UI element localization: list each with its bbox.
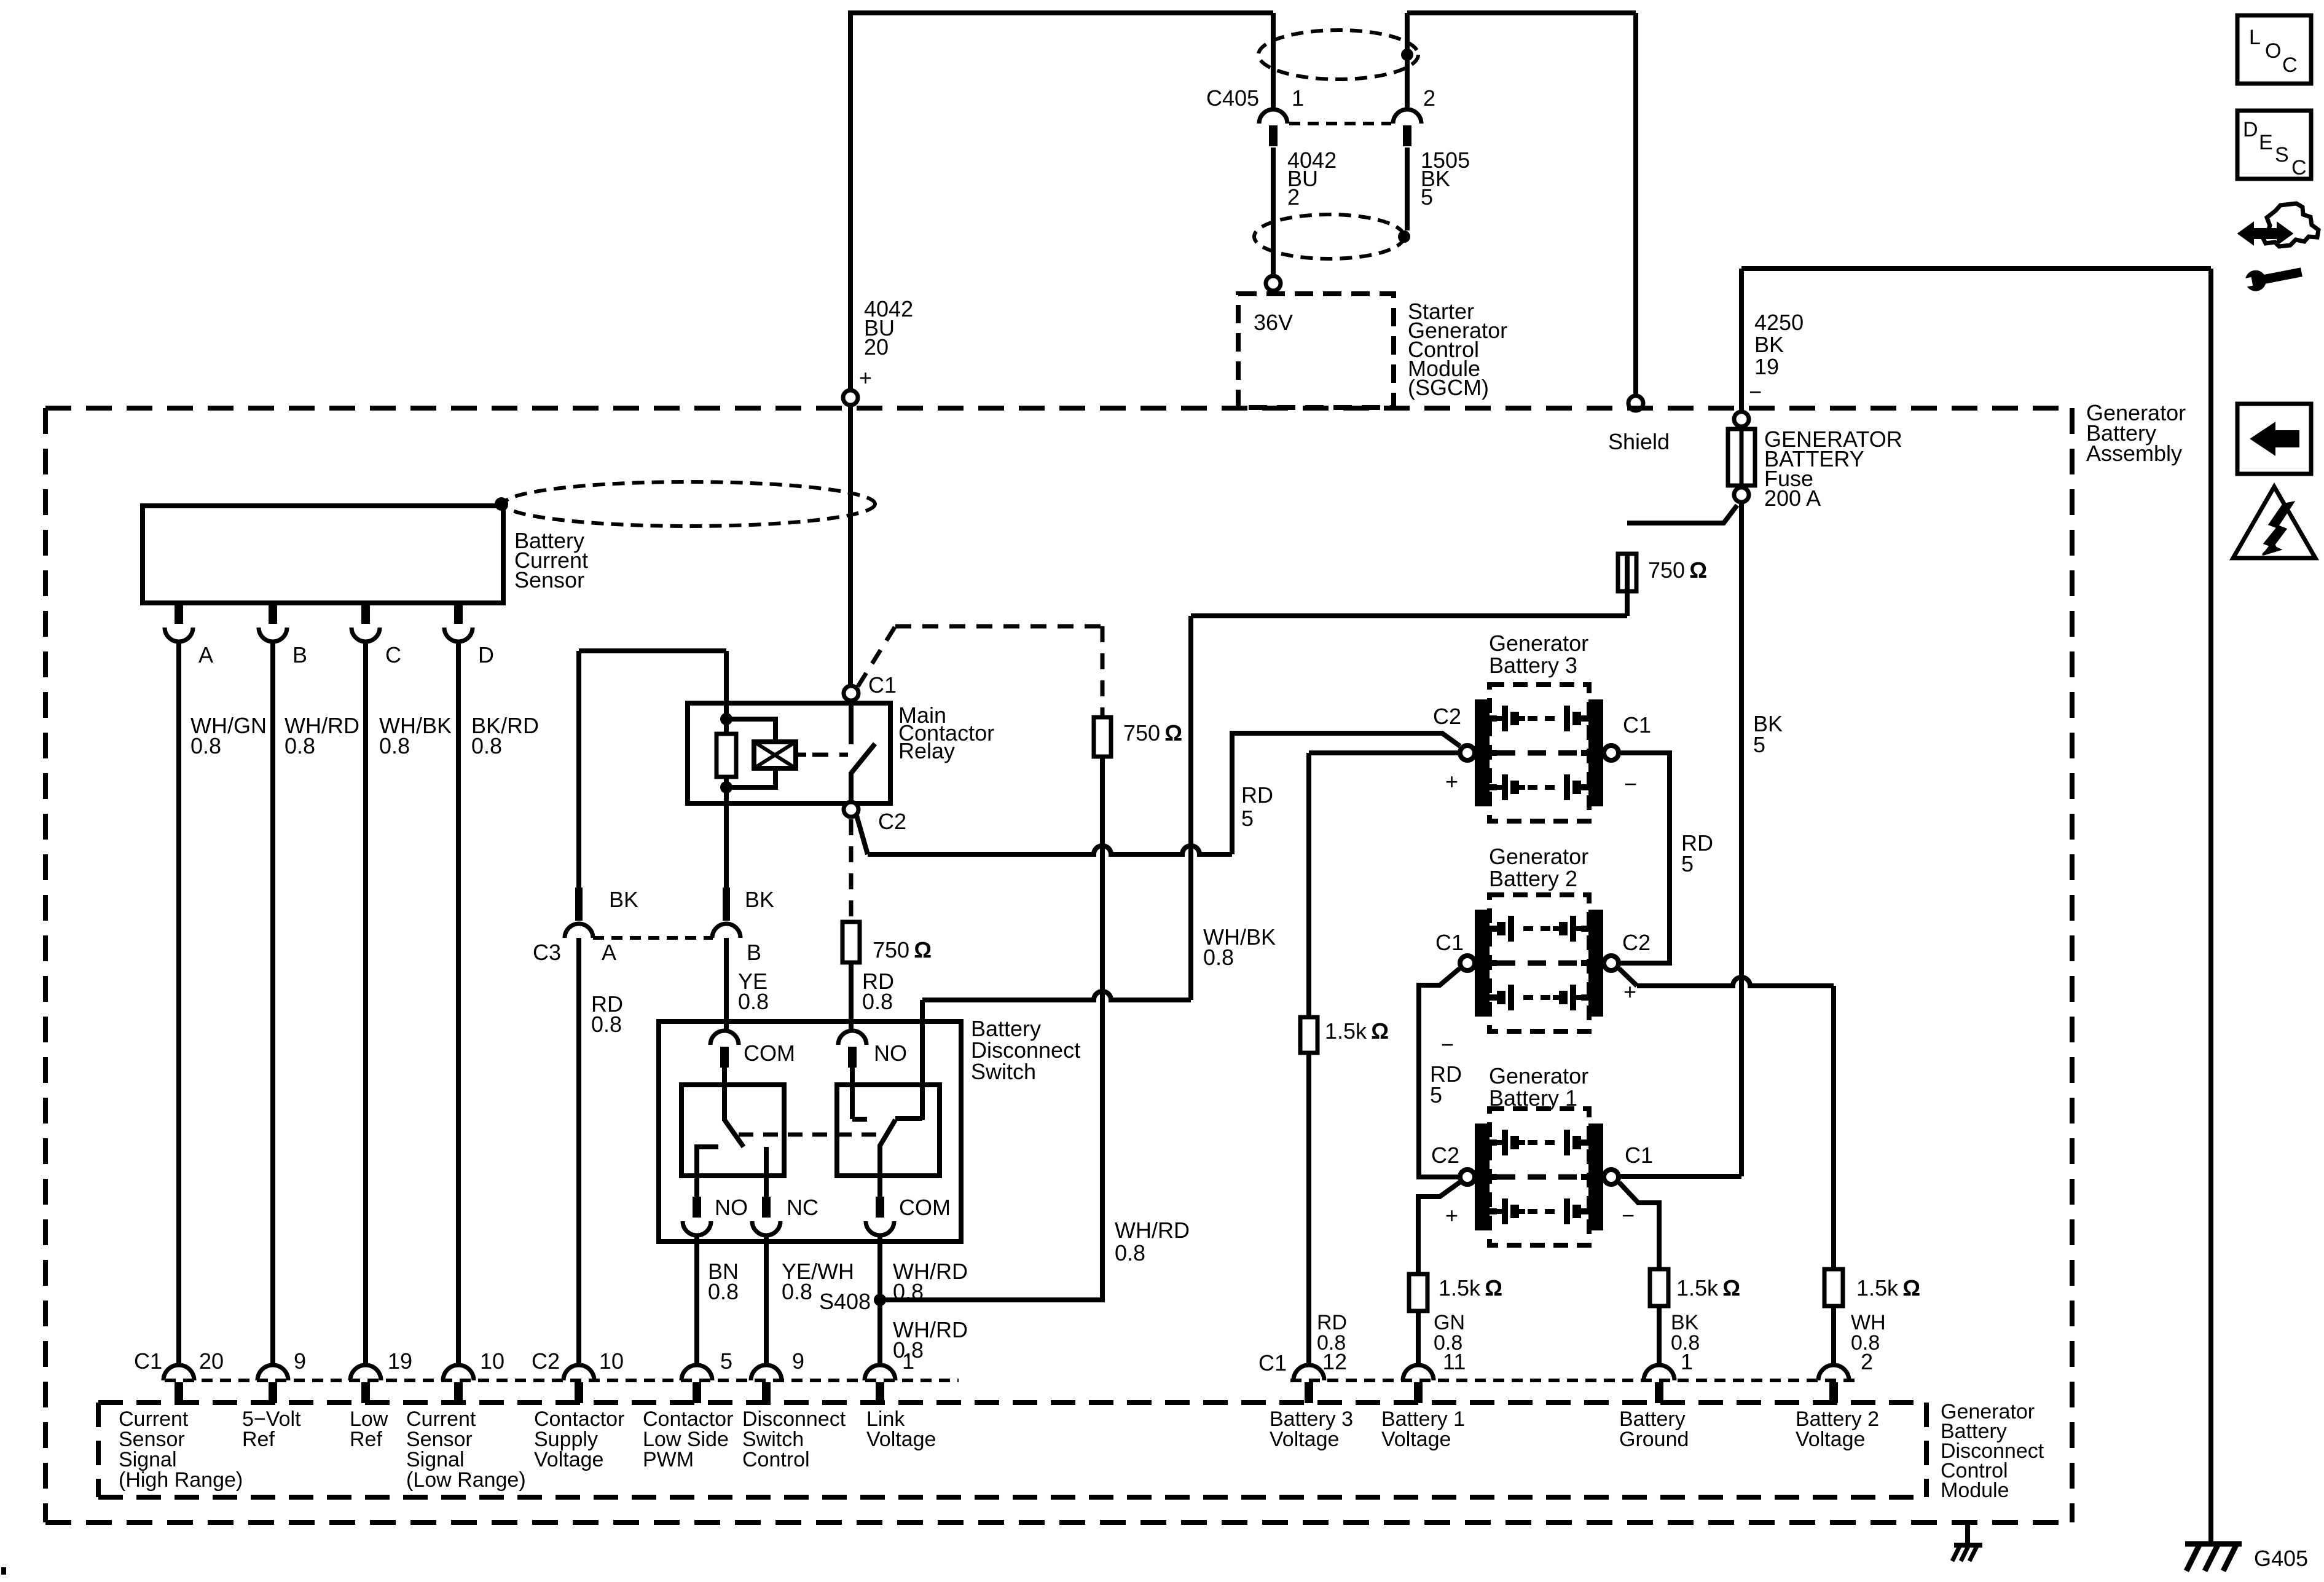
svg-text:Ground: Ground — [1619, 1428, 1689, 1451]
svg-text:NC: NC — [787, 1195, 819, 1220]
svg-text:L: L — [2249, 26, 2261, 49]
svg-text:0.8: 0.8 — [285, 733, 315, 758]
svg-text:0.8: 0.8 — [708, 1279, 739, 1304]
svg-text:A: A — [198, 642, 213, 667]
svg-text:NO: NO — [874, 1041, 907, 1066]
svg-text:750 Ω: 750 Ω — [1648, 557, 1707, 583]
svg-text:C1: C1 — [1435, 930, 1464, 955]
svg-text:C2: C2 — [1431, 1143, 1459, 1168]
svg-text:Module: Module — [1941, 1479, 2009, 1502]
svg-text:0.8: 0.8 — [1115, 1240, 1145, 1265]
svg-text:Relay: Relay — [898, 738, 955, 763]
svg-text:0.8: 0.8 — [893, 1279, 924, 1304]
svg-text:5: 5 — [1753, 732, 1765, 757]
svg-text:S408: S408 — [819, 1289, 871, 1314]
svg-text:1.5k Ω: 1.5k Ω — [1676, 1275, 1740, 1301]
svg-text:750 Ω: 750 Ω — [873, 937, 932, 962]
svg-text:BK: BK — [745, 887, 774, 912]
svg-text:E: E — [2259, 131, 2273, 154]
svg-text:0.8: 0.8 — [862, 989, 893, 1014]
svg-text:Battery 2: Battery 2 — [1489, 866, 1577, 891]
svg-text:10: 10 — [480, 1348, 504, 1374]
svg-text:0.8: 0.8 — [471, 733, 502, 758]
svg-text:Generator: Generator — [1489, 844, 1588, 869]
svg-text:C2: C2 — [532, 1348, 560, 1374]
svg-text:+: + — [1445, 1203, 1458, 1228]
svg-text:2: 2 — [1423, 85, 1435, 111]
svg-text:Voltage: Voltage — [534, 1448, 603, 1471]
svg-text:2: 2 — [1287, 184, 1300, 210]
svg-text:Control: Control — [742, 1448, 810, 1471]
svg-text:0.8: 0.8 — [379, 733, 410, 758]
svg-text:−: − — [1441, 1032, 1454, 1057]
svg-text:C: C — [385, 642, 401, 667]
svg-text:C1: C1 — [1623, 712, 1651, 738]
svg-text:750 Ω: 750 Ω — [1123, 720, 1182, 746]
svg-text:C405: C405 — [1206, 85, 1259, 111]
svg-text:NO: NO — [715, 1195, 748, 1220]
svg-text:S: S — [2275, 143, 2289, 167]
svg-text:Assembly: Assembly — [2086, 441, 2182, 466]
svg-text:5: 5 — [1430, 1082, 1442, 1108]
svg-text:19: 19 — [1754, 354, 1779, 379]
svg-text:BK: BK — [609, 887, 638, 912]
svg-text:0.8: 0.8 — [190, 733, 221, 758]
svg-text:Ref: Ref — [242, 1428, 275, 1451]
svg-text:5: 5 — [1241, 806, 1254, 831]
svg-text:4250: 4250 — [1754, 310, 1804, 335]
svg-text:Battery 3: Battery 3 — [1489, 653, 1577, 678]
svg-text:C2: C2 — [1433, 704, 1461, 729]
svg-text:G405: G405 — [2254, 1546, 2308, 1571]
svg-text:C3: C3 — [533, 940, 561, 965]
svg-text:Shield: Shield — [1608, 429, 1670, 454]
svg-text:C1: C1 — [1625, 1143, 1653, 1168]
svg-text:−: − — [1749, 379, 1762, 404]
svg-text:Voltage: Voltage — [1270, 1428, 1339, 1451]
svg-text:+: + — [1445, 769, 1458, 794]
svg-text:Sensor: Sensor — [514, 567, 584, 592]
svg-text:12: 12 — [1322, 1349, 1347, 1374]
svg-text:19: 19 — [388, 1348, 412, 1374]
svg-text:1.5k Ω: 1.5k Ω — [1439, 1275, 1502, 1301]
svg-text:1.5k Ω: 1.5k Ω — [1856, 1275, 1920, 1301]
svg-text:36V: 36V — [1254, 310, 1293, 335]
svg-text:5: 5 — [720, 1348, 732, 1374]
svg-text:C1: C1 — [868, 672, 897, 698]
svg-text:C1: C1 — [134, 1348, 162, 1374]
svg-text:RD: RD — [1241, 782, 1273, 808]
svg-text:COM: COM — [744, 1041, 795, 1066]
svg-text:1: 1 — [902, 1348, 914, 1374]
svg-text:Generator: Generator — [1489, 631, 1588, 656]
svg-text:(High Range): (High Range) — [119, 1468, 243, 1492]
svg-text:11: 11 — [1443, 1349, 1466, 1374]
svg-text:1: 1 — [1681, 1349, 1693, 1374]
svg-text:D: D — [2243, 118, 2258, 141]
svg-text:C: C — [2282, 53, 2298, 77]
svg-text:B: B — [747, 940, 761, 965]
svg-text:WH/RD: WH/RD — [1115, 1218, 1190, 1243]
svg-text:BK: BK — [1754, 332, 1784, 357]
svg-text:C2: C2 — [1622, 930, 1651, 955]
svg-text:9: 9 — [792, 1348, 804, 1374]
svg-text:200 A: 200 A — [1764, 486, 1821, 511]
svg-text:Generator: Generator — [1489, 1063, 1588, 1088]
svg-text:0.8: 0.8 — [782, 1279, 812, 1304]
svg-text:Ref: Ref — [350, 1428, 382, 1451]
svg-text:+: + — [859, 365, 872, 390]
svg-text:0.8: 0.8 — [591, 1012, 622, 1037]
svg-text:(Low Range): (Low Range) — [406, 1468, 526, 1492]
svg-text:20: 20 — [864, 334, 889, 360]
svg-text:B: B — [292, 642, 307, 667]
svg-text:Voltage: Voltage — [866, 1428, 936, 1451]
svg-text:Battery 1: Battery 1 — [1489, 1085, 1577, 1111]
svg-text:2: 2 — [1861, 1349, 1873, 1374]
svg-text:Voltage: Voltage — [1381, 1428, 1451, 1451]
svg-text:10: 10 — [599, 1348, 624, 1374]
svg-text:1.5k Ω: 1.5k Ω — [1325, 1018, 1389, 1044]
svg-text:C: C — [2291, 156, 2307, 179]
svg-text:20: 20 — [199, 1348, 224, 1374]
svg-text:9: 9 — [294, 1348, 306, 1374]
svg-text:0.8: 0.8 — [1203, 945, 1234, 970]
svg-text:−: − — [1624, 771, 1637, 797]
svg-text:5: 5 — [1421, 184, 1433, 210]
svg-text:Switch: Switch — [971, 1059, 1036, 1084]
svg-text:COM: COM — [899, 1195, 951, 1220]
svg-text:5: 5 — [1681, 851, 1694, 876]
svg-text:O: O — [2265, 39, 2281, 63]
svg-text:C2: C2 — [878, 809, 906, 834]
svg-text:D: D — [478, 642, 494, 667]
svg-text:Voltage: Voltage — [1796, 1428, 1865, 1451]
svg-text:C1: C1 — [1258, 1350, 1287, 1375]
svg-text:−: − — [1622, 1203, 1635, 1228]
svg-text:0.8: 0.8 — [738, 989, 769, 1014]
svg-text:A: A — [602, 940, 616, 965]
svg-text:1: 1 — [1292, 85, 1304, 111]
svg-text:PWM: PWM — [643, 1448, 694, 1471]
svg-text:(SGCM): (SGCM) — [1408, 375, 1489, 400]
